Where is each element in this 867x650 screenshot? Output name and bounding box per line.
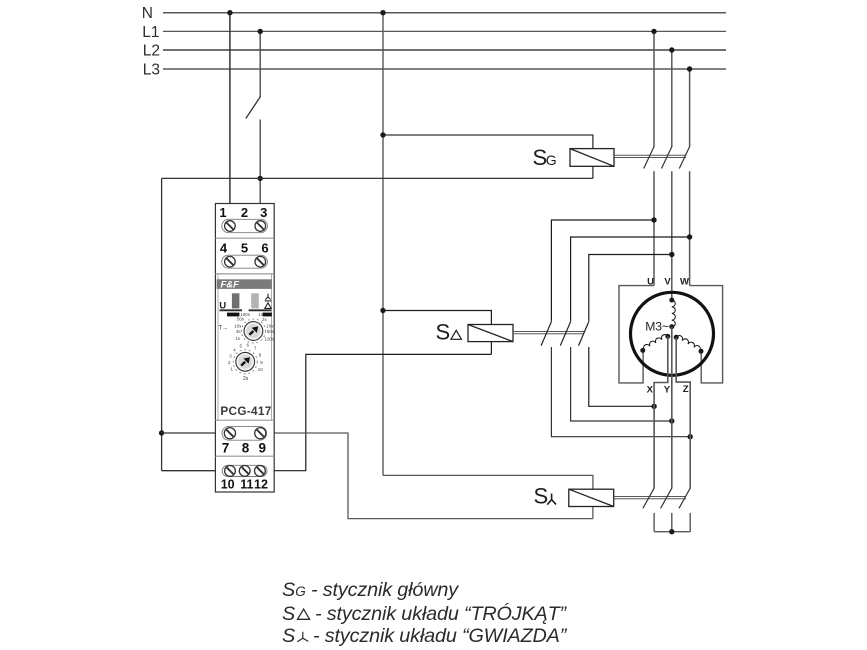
terminal row 10-12 stadium bbox=[222, 465, 267, 476]
node jumper U tap bbox=[651, 217, 656, 222]
svg-text:- stycznik układu “TRÓJKĄT”: - stycznik układu “TRÓJKĄT” bbox=[315, 602, 568, 625]
node terminal 7 branch bbox=[159, 430, 164, 435]
svg-text:F&F: F&F bbox=[221, 280, 240, 291]
relay PCG-417 body bbox=[215, 204, 274, 493]
wire phase W below SG contact bbox=[689, 171, 691, 285]
svg-text:60s: 60s bbox=[267, 329, 275, 334]
svg-text:11: 11 bbox=[240, 477, 253, 491]
terminal row 7-9 stadium bbox=[222, 426, 267, 440]
indicator underline right bbox=[249, 309, 272, 311]
terminal row 1-3 stadium bbox=[222, 219, 268, 232]
node S-delta feed junction bbox=[380, 308, 385, 313]
wire S-delta pole1 out to Z bbox=[551, 347, 690, 437]
wire star point bar bbox=[654, 531, 690, 533]
wire motor Z internal drop bbox=[676, 337, 690, 488]
relay section divider 1 bbox=[215, 237, 274, 239]
svg-text:SG: SG bbox=[533, 145, 557, 170]
svg-text:3: 3 bbox=[260, 205, 267, 220]
node junction L1 line with SG return wire bbox=[258, 176, 263, 181]
svg-text:S: S bbox=[436, 320, 451, 345]
mechanical linkage SG bbox=[614, 155, 686, 157]
svg-text:SG: SG bbox=[282, 579, 306, 601]
node winding V bottom bbox=[669, 324, 674, 329]
contact S-star pole 2 bbox=[661, 488, 672, 509]
wire N rail bbox=[163, 12, 726, 14]
svg-text:4: 4 bbox=[220, 241, 228, 256]
svg-text:10s: 10s bbox=[266, 323, 274, 328]
node jumper W tap bbox=[687, 234, 692, 239]
wire N drop to relay terminal 1 bbox=[229, 13, 231, 221]
wire star point leg 3 bbox=[689, 513, 691, 532]
svg-text:2: 2 bbox=[241, 205, 248, 220]
svg-text:W: W bbox=[680, 276, 689, 287]
wire L1 drop lower (switch to relay terminal 3) bbox=[259, 120, 261, 222]
svg-text:L2: L2 bbox=[143, 43, 160, 60]
svg-text:Y: Y bbox=[664, 384, 671, 395]
relay section divider 2 bbox=[215, 273, 274, 275]
wire to terminal 10 bbox=[162, 470, 226, 472]
svg-text:8: 8 bbox=[242, 440, 250, 455]
svg-text:10: 10 bbox=[221, 477, 235, 491]
svg-text:N: N bbox=[142, 5, 153, 22]
star-delta mini symbol bbox=[265, 294, 272, 309]
node L1 drop junction bbox=[258, 29, 263, 34]
wire L2 rail bbox=[163, 49, 726, 51]
svg-text:5: 5 bbox=[241, 241, 248, 256]
switch blade (manual switch) bbox=[246, 97, 261, 119]
indicator underline left bbox=[220, 309, 243, 311]
wire star point leg 1 bbox=[653, 513, 655, 532]
wire L1 drop upper (to switch) bbox=[259, 31, 261, 97]
node L1 phase tap bbox=[651, 29, 656, 34]
svg-text:L3: L3 bbox=[143, 62, 160, 79]
node star point bbox=[669, 529, 674, 534]
svg-text:1: 1 bbox=[219, 205, 226, 220]
contact SG pole 3 bbox=[679, 146, 690, 168]
node winding U end bbox=[640, 348, 645, 353]
terminal row 4-6 stadium bbox=[222, 255, 268, 268]
node Y tap bbox=[669, 418, 674, 423]
mini label PAUSE bbox=[227, 313, 239, 317]
wire N branch vertical (feeds coils) bbox=[382, 13, 384, 476]
svg-text:9: 9 bbox=[259, 440, 267, 455]
wire S-delta coil top feed bbox=[383, 311, 491, 355]
screw terminal 9 bbox=[255, 428, 266, 439]
relay inner panel border right bbox=[271, 274, 273, 420]
relay section divider 3 bbox=[215, 419, 274, 421]
svg-text:3s: 3s bbox=[236, 329, 241, 334]
wire phase U below SG contact bbox=[653, 171, 655, 285]
svg-text:Z: Z bbox=[683, 384, 689, 395]
svg-text:L1: L1 bbox=[142, 24, 159, 41]
svg-text:2s: 2s bbox=[262, 317, 267, 322]
wire motor W feed bracket (right wrap) bbox=[690, 286, 723, 383]
svg-text:T→: T→ bbox=[219, 326, 229, 332]
label S-delta triangle symbol bbox=[451, 330, 462, 339]
indicator bar 1 bbox=[232, 293, 240, 308]
screw terminal 10 bbox=[225, 466, 236, 477]
screw terminal 1 bbox=[225, 221, 236, 232]
svg-text:6: 6 bbox=[261, 241, 268, 256]
screw terminal 11 bbox=[239, 466, 250, 477]
screw terminal 7 bbox=[224, 428, 235, 439]
label S-star symbol bbox=[547, 494, 556, 505]
screw terminal 3 bbox=[255, 221, 266, 232]
contact S-star pole 1 bbox=[643, 488, 654, 509]
wire L1 rail bbox=[163, 30, 726, 32]
node L2 phase tap bbox=[669, 47, 674, 52]
wire L2 phase drop to SG contact bbox=[671, 50, 673, 147]
svg-text:10s: 10s bbox=[234, 323, 242, 328]
wire S-star coil return bbox=[264, 433, 593, 519]
indicator bar 2 bbox=[251, 293, 259, 308]
wire left loop vertical to terminals 7 and 10 bbox=[161, 178, 163, 470]
dial 2 scale labels bbox=[228, 343, 263, 373]
svg-text:M3~: M3~ bbox=[645, 320, 669, 334]
wire SG coil return bottom bbox=[162, 177, 593, 179]
winding U-X (left coil) bbox=[642, 333, 667, 349]
wire S-star coil top feed bbox=[383, 475, 593, 518]
contact S-delta pole 1 bbox=[541, 321, 552, 346]
relay section divider 4 bbox=[215, 455, 274, 457]
contact S-star pole 3 bbox=[679, 488, 690, 509]
svg-text:10: 10 bbox=[258, 367, 263, 372]
mechanical linkage S-star bbox=[614, 497, 686, 499]
contactor coil S-delta bbox=[468, 325, 513, 342]
wire to terminal 7 bbox=[162, 432, 226, 434]
svg-text:50s: 50s bbox=[237, 317, 245, 322]
wire star point leg 2 bbox=[671, 513, 673, 532]
contact SG pole 2 bbox=[662, 146, 673, 168]
svg-text:12: 12 bbox=[254, 477, 268, 491]
wire SG coil top feed bbox=[383, 135, 593, 178]
screw terminal 12 bbox=[255, 466, 266, 477]
wire delta jumper W to S-delta pole 2 bbox=[571, 237, 690, 321]
screw terminal 6 bbox=[255, 256, 266, 267]
contactor coil S-star bbox=[569, 489, 614, 506]
wire delta jumper U to S-delta pole 1 bbox=[551, 220, 654, 321]
winding V-Y (vertical coil) bbox=[672, 300, 675, 327]
contact SG pole 1 bbox=[644, 146, 655, 168]
dial 1 scale labels bbox=[234, 317, 275, 342]
wire S-delta pole3 out to X bbox=[589, 347, 654, 406]
wire S-delta pole2 out to Y bbox=[571, 347, 672, 421]
svg-text:- stycznik główny: - stycznik główny bbox=[311, 579, 459, 601]
svg-text:S: S bbox=[282, 603, 295, 625]
svg-text:V: V bbox=[664, 276, 671, 287]
node winding Z top bbox=[674, 335, 679, 340]
wire phase V below SG contact bbox=[671, 171, 673, 300]
svg-text:120s: 120s bbox=[265, 337, 275, 342]
node X tap bbox=[651, 404, 656, 409]
wire motor Y line down bbox=[671, 327, 673, 488]
svg-text:S: S bbox=[534, 484, 549, 509]
node Z tap bbox=[688, 434, 693, 439]
mechanical linkage S-delta bbox=[513, 332, 584, 334]
svg-text:S: S bbox=[282, 625, 295, 647]
F&F logo band bbox=[217, 279, 272, 289]
svg-text:- stycznik układu “GWIAZDA”: - stycznik układu “GWIAZDA” bbox=[313, 625, 568, 647]
relay inner panel border left bbox=[217, 274, 219, 420]
node SG feed junction bbox=[380, 132, 385, 137]
dial 2 (time value) bbox=[233, 350, 257, 374]
dial 1 (time range) bbox=[241, 319, 265, 343]
motor M1 circle bbox=[631, 292, 714, 375]
node winding W end bbox=[699, 349, 704, 354]
mini label START bbox=[263, 313, 272, 317]
contact S-delta pole 2 bbox=[560, 321, 571, 346]
node N drop junction bbox=[227, 10, 232, 15]
node N branch top bbox=[380, 10, 385, 15]
svg-text:7: 7 bbox=[222, 440, 230, 455]
winding W-Z (right coil) bbox=[676, 334, 701, 350]
node winding V top bbox=[669, 298, 674, 303]
node L3 phase tap bbox=[687, 66, 692, 71]
svg-text:U: U bbox=[647, 276, 654, 287]
node jumper V tap bbox=[669, 252, 674, 257]
wire motor U feed bracket (left wrap) bbox=[619, 286, 654, 383]
svg-text:X: X bbox=[647, 384, 654, 395]
wire L3 phase drop to SG contact bbox=[689, 69, 691, 147]
svg-text:1s: 1s bbox=[235, 336, 240, 341]
wire L3 rail bbox=[163, 68, 726, 70]
svg-text:PCG-417: PCG-417 bbox=[220, 404, 271, 418]
node winding X top bbox=[665, 334, 670, 339]
wire S-delta coil return to terminal 12 bbox=[264, 354, 491, 470]
contact S-delta pole 3 bbox=[579, 321, 590, 346]
wire L1 phase drop to SG contact bbox=[653, 31, 655, 146]
contactor coil SG bbox=[570, 149, 614, 167]
wire delta jumper V to S-delta pole 3 bbox=[589, 255, 672, 321]
svg-text:2s: 2s bbox=[243, 376, 249, 382]
wire motor X internal drop bbox=[654, 336, 668, 488]
screw terminal 4 bbox=[225, 256, 236, 267]
